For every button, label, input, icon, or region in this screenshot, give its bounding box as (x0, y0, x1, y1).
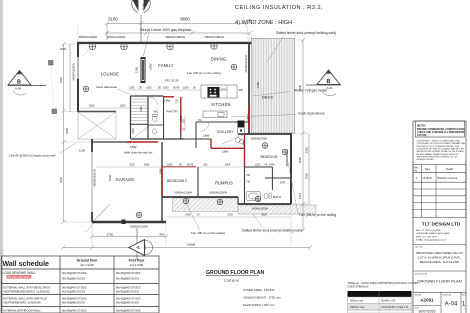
svg-text:Slatted timber deck (exempt bu: Slatted timber deck (exempt building wor… (276, 31, 336, 35)
left page edge strip (0, 0, 3, 313)
svg-text:1205: 1205 (129, 87, 135, 90)
svg-text:3000: 3000 (120, 105, 126, 108)
scullery tubs (236, 138, 241, 143)
svg-text:1400: 1400 (140, 106, 143, 112)
svg-text:3600: 3600 (261, 214, 267, 217)
LBW red wall under stairs (127, 141, 158, 143)
svg-text:90: 90 (248, 18, 252, 22)
svg-text:WC: WC (154, 110, 160, 114)
svg-text:90x45@480 NOGS: 90x45@480 NOGS (62, 301, 85, 305)
slatted deck band south of rumpus (173, 198, 239, 212)
svg-text:8800: 8800 (180, 17, 190, 22)
svg-text:Size & Height: Size & Height (381, 293, 396, 296)
svg-text:800Wx2200H: 800Wx2200H (79, 35, 97, 39)
scullery leader (222, 135, 243, 144)
svg-text:LBW: LBW (130, 145, 137, 149)
section marker B (right) (306, 70, 341, 96)
svg-text:Job Title: Job Title (415, 246, 424, 249)
svg-text:KITCHEN: KITCHEN (211, 102, 230, 107)
svg-text:GROUND FLOOR PLAN: GROUND FLOOR PLAN (206, 270, 264, 276)
svg-text:OVER OPENINGS: OVER OPENINGS (348, 286, 369, 289)
svg-text:1800Wx2200H: 1800Wx2200H (130, 225, 148, 229)
wall: rumpus east (244, 166, 246, 204)
svg-text:NOTE:: NOTE: (417, 124, 426, 128)
title block outer (413, 121, 466, 313)
svg-text:1200: 1200 (135, 67, 139, 73)
window dimension line (105, 31, 252, 35)
svg-text:90 90: 90 90 (187, 164, 194, 167)
svg-text:1500: 1500 (167, 164, 173, 167)
svg-text:710: 710 (246, 181, 251, 184)
LBW red segment east wall (248, 107, 250, 130)
svg-text:Ground floor: Ground floor (77, 259, 98, 263)
svg-text:LBW: LBW (246, 114, 250, 121)
svg-text:LOAD BEARING WALL: LOAD BEARING WALL (3, 271, 37, 275)
svg-text:Walls under the stair b/w: Walls under the stair b/w (124, 151, 152, 155)
svg-text:26.08/20: 26.08/20 (423, 177, 433, 180)
svg-text:Max. Span (mm): Max. Span (mm) (350, 293, 369, 296)
wall: house east upper (248, 44, 250, 134)
svg-text:CEILING INSULATION : R3.2,: CEILING INSULATION : R3.2, (235, 5, 323, 11)
svg-text:800Wx2200H: 800Wx2200H (107, 35, 125, 39)
svg-text:5340: 5340 (108, 174, 112, 181)
svg-text:COPYRIGHT © THIS DOCUMENT: COPYRIGHT © THIS DOCUMENT AND THE (417, 140, 461, 143)
wall: lounge south (78, 111, 116, 113)
right dim lines (301, 38, 309, 232)
svg-text:2490: 2490 (144, 164, 150, 167)
svg-text:PANTRY: PANTRY (166, 110, 178, 114)
svg-text:1500: 1500 (89, 105, 95, 108)
svg-text:2000: 2000 (60, 47, 67, 51)
svg-text:4800Wx2200H: 4800Wx2200H (93, 169, 97, 186)
copyright text (417, 140, 466, 162)
wall: garage east (161, 142, 163, 222)
wc toilet (153, 115, 158, 122)
svg-text:TLT DESIGN LTD: TLT DESIGN LTD (422, 222, 461, 228)
svg-text:FAMILY: FAMILY (158, 63, 174, 68)
svg-text:LOT 6, 6 HARUKU/PUKU AVE ,: LOT 6, 6 HARUKU/PUKU AVE , (418, 256, 462, 260)
bedroom interior wall (245, 166, 272, 168)
svg-text:LBW: LBW (164, 99, 171, 103)
svg-text:CEILING HEIGHT : 2730 mm: CEILING HEIGHT : 2730 mm (243, 296, 281, 300)
svg-text:Building Consent: Building Consent (438, 176, 458, 180)
svg-text:Drawing Title: Drawing Title (415, 273, 428, 276)
svg-text:LBW: LBW (203, 134, 210, 138)
bottom main dim (61, 246, 312, 250)
svg-text:5700: 5700 (107, 233, 114, 237)
svg-text:WEATHERBOARD/BRICK CLADDING: WEATHERBOARD/BRICK CLADDING (4, 290, 50, 294)
svg-text:Cook hood above: Cook hood above (298, 112, 325, 116)
job title section (413, 244, 466, 246)
svg-text:A-04: A-04 (445, 302, 458, 308)
svg-text:BEDROOM: BEDROOM (260, 155, 277, 159)
svg-text:90 90: 90 90 (173, 87, 180, 90)
svg-text:9030: 9030 (221, 88, 227, 92)
svg-text:1905: 1905 (225, 164, 231, 167)
drawing title section (413, 270, 466, 272)
svg-text:1290: 1290 (79, 149, 86, 153)
svg-text:Sheet No.: Sheet No. (443, 294, 453, 297)
svg-text:DECK: DECK (262, 95, 273, 100)
outer wall: bath south (238, 203, 291, 205)
LBW red bedroom2 north (162, 166, 196, 168)
row internal bathroom (4, 309, 141, 313)
lounge west window lighter (77, 57, 79, 79)
svg-text:CONTENTS OF THIS DOCUMENT: CONTENTS OF THIS DOCUMENT MAY NOT BE (417, 147, 465, 150)
svg-text:MOB: 021 1120 1178: MOB: 021 1120 1178 (416, 237, 437, 239)
svg-text:2310: 2310 (255, 164, 261, 167)
left dim lines (62, 42, 71, 224)
wall: wc east (163, 96, 165, 139)
wall: stairs west (130, 96, 132, 139)
scullery door arc (200, 123, 209, 132)
svg-text:LBW: LBW (222, 150, 229, 154)
svg-text:Slatted timber deck (exempt bu: Slatted timber deck (exempt building wor… (242, 229, 302, 233)
svg-text:LBW: LBW (179, 115, 183, 122)
LBW red wall pantry east (180, 97, 182, 132)
svg-text:1200: 1200 (132, 128, 135, 134)
svg-text:900mm max: 900mm max (350, 300, 364, 303)
svg-text:Fan (25L/s) on the ceiling: Fan (25L/s) on the ceiling (187, 71, 221, 75)
svg-text:1800Wx1800H: 1800Wx1800H (204, 35, 224, 39)
svg-text:900Wx1000H: 900Wx1000H (252, 207, 268, 211)
svg-text:No.: No. (414, 170, 418, 173)
outer wall: bedroom wing north (238, 133, 291, 135)
svg-text:FFL 30 30: FFL 30 30 (165, 79, 179, 83)
wr south wall (265, 177, 291, 179)
svg-text:ADD: 31 TIROTO DRIVE,: ADD: 31 TIROTO DRIVE, (416, 229, 441, 232)
laundry tub (153, 129, 157, 134)
svg-text:Details: Details (446, 168, 454, 171)
svg-text:COPYRIGHT OF THIS DOCUMENT: COPYRIGHT OF THIS DOCUMENT REMAIN THE (417, 142, 466, 145)
svg-text:90x45@480 NOGS: 90x45@480 NOGS (116, 301, 139, 305)
svg-text:1600Wx1200H: 1600Wx1200H (174, 191, 192, 195)
svg-text:900: 900 (203, 164, 208, 167)
svg-text:30/07/2020: 30/07/2020 (419, 310, 436, 313)
outer wall: bedroom2/rumpus south (162, 196, 238, 198)
svg-text:Date: Date (425, 168, 431, 171)
svg-text:GLENDENE, BEACH, AUCKLAND: GLENDENE, BEACH, AUCKLAND (416, 232, 450, 235)
svg-text:EXTERNAL WALL WITH VERTICLE: EXTERNAL WALL WITH VERTICLE (4, 297, 48, 301)
svg-text:1000: 1000 (183, 87, 189, 90)
svg-text:WEATHERBOARD CLADDING: WEATHERBOARD CLADDING (4, 301, 41, 305)
cooktop black (208, 87, 220, 98)
stair landing wall (131, 124, 148, 126)
outer wall: garage south (92, 221, 166, 223)
svg-text:1215: 1215 (298, 192, 302, 199)
svg-text:Wall schedule: Wall schedule (3, 261, 50, 268)
outer wall: top (77, 42, 252, 44)
wall: scullery north (196, 121, 249, 123)
svg-text:RUMPUS: RUMPUS (215, 181, 233, 186)
svg-text:90x45@400 STUDS: 90x45@400 STUDS (116, 297, 141, 301)
svg-text:A-09: A-09 (142, 3, 146, 10)
closet wall (271, 167, 273, 190)
fireplace (141, 57, 146, 83)
svg-text:(H1.2 SG8): (H1.2 SG8) (130, 263, 144, 267)
svg-text:90x45@800 NOGS: 90x45@800 NOGS (116, 277, 139, 281)
outer wall: left lounge (77, 43, 79, 112)
svg-text:90x45@400 STUDS: 90x45@400 STUDS (116, 271, 141, 275)
internal dim row y88 (129, 87, 196, 90)
fridge black (238, 121, 245, 128)
svg-text:2400Wx2200H: 2400Wx2200H (72, 63, 76, 80)
svg-text:2400Wx2200H: 2400Wx2200H (244, 55, 248, 72)
svg-text:1800: 1800 (65, 127, 69, 134)
wall schedule table (2, 256, 160, 313)
svg-text:Fan (25L/s) on the ceiling: Fan (25L/s) on the ceiling (191, 231, 225, 235)
svg-text:DINING: DINING (211, 57, 227, 62)
wall: bedroom2/rumpus divide (197, 167, 199, 197)
svg-text:140x45 @300 full height studs: 140x45 @300 full height studs wall (9, 154, 56, 158)
smoke detector symbols (83, 43, 288, 218)
svg-text:Rinnai Linear 1000 gas firepla: Rinnai Linear 1000 gas fireplace (140, 28, 192, 32)
window labels along top wall (79, 35, 224, 39)
svg-text:90x45@800 NOGS: 90x45@800 NOGS (62, 277, 85, 281)
lounge corner dashed brace (81, 45, 95, 57)
svg-text:LBW: LBW (159, 168, 163, 175)
appliance below fridge (238, 128, 245, 134)
svg-text:A-09: A-09 (15, 87, 21, 91)
row external bevel back (4, 286, 141, 294)
svg-text:GARAGE: GARAGE (116, 177, 135, 182)
bath fixtures (247, 192, 272, 201)
svg-text:1400: 1400 (269, 164, 275, 167)
section marker A (top) (132, 0, 151, 43)
LBW red wall pantry north (164, 96, 175, 98)
svg-text:Two/140x45 or 2 figs h x4: Two/140x45 or 2 figs h x4 (381, 306, 409, 309)
svg-text:1600Wx2200H: 1600Wx2200H (209, 191, 227, 195)
svg-text:LBW: LBW (242, 140, 246, 147)
svg-text:EAVE WIDTH = 600 mm: EAVE WIDTH = 600 mm (243, 303, 275, 307)
svg-text:90x45@400 STUDS: 90x45@400 STUDS (62, 286, 87, 290)
svg-text:3120: 3120 (129, 164, 135, 167)
construction extension lines (64, 24, 309, 246)
post on garage south wall (122, 220, 126, 225)
svg-text:90x45@800 NOGS: 90x45@800 NOGS (62, 290, 85, 294)
note box (416, 121, 465, 137)
LBW red rumpus east (244, 134, 246, 166)
pantry dim line (184, 115, 186, 132)
under-stair diagonal (131, 126, 149, 140)
garage door swing (86, 204, 110, 232)
posts (49, 61, 54, 66)
svg-text:2400: 2400 (59, 76, 63, 83)
wall: stairs east / wc west (147, 96, 149, 139)
svg-text:1900mm max: 1900mm max (350, 306, 365, 309)
svg-text:990: 990 (159, 233, 164, 237)
wall: pantry south (131, 138, 184, 140)
section marker B (left) (8, 71, 46, 95)
svg-text:90x45@400 STUDS: 90x45@400 STUDS (62, 271, 87, 275)
svg-text:E-MAIL: tltdesign8@gmail.com: E-MAIL: tltdesign8@gmail.com (416, 239, 446, 242)
svg-text:1000: 1000 (184, 118, 186, 124)
svg-text:9240: 9240 (298, 84, 302, 91)
svg-text:Fan (25L/s) on the ceiling: Fan (25L/s) on the ceiling (299, 213, 336, 217)
svg-text:INTERNAL BATHROOM WALL: INTERNAL BATHROOM WALL (4, 309, 42, 313)
svg-text:A-09: A-09 (144, 244, 147, 250)
wc door arc (150, 97, 158, 105)
top dimension line overall (105, 22, 249, 41)
svg-text:2550: 2550 (305, 172, 309, 179)
svg-text:B: B (17, 80, 21, 86)
svg-text:5450: 5450 (256, 81, 260, 88)
wall: scullery west (195, 122, 197, 148)
internal dim row y165 (129, 164, 231, 167)
bottom dim garage (90, 235, 168, 239)
svg-text:REPRODUCED EITHER IN WHOLE: REPRODUCED EITHER IN WHOLE OR IN PART (417, 150, 465, 153)
kitchen bench (201, 85, 237, 98)
svg-text:4) WIND ZONE : HIGH: 4) WIND ZONE : HIGH (235, 20, 292, 26)
deck area with slatted timber hatch (252, 39, 295, 134)
svg-text:BEACHLANDS, AUCKLAND: BEACHLANDS, AUCKLAND (420, 260, 460, 264)
svg-text:ON SITE: ON SITE (417, 134, 427, 137)
svg-text:A-09: A-09 (327, 86, 333, 90)
revision table (413, 165, 466, 218)
wall: middle north (131, 95, 164, 97)
svg-text:5100: 5100 (108, 17, 118, 22)
staircase treads (131, 99, 148, 124)
svg-text:90x45@800 NOGS: 90x45@800 NOGS (116, 290, 139, 294)
LBW red scullery south (211, 147, 245, 149)
section marker A (bottom) (129, 228, 153, 260)
svg-text:90x45@400 STUDS: 90x45@400 STUDS (62, 297, 87, 301)
svg-text:1800Wx700H: 1800Wx700H (251, 137, 267, 141)
svg-text:90x45h x 4 B: 90x45h x 4 B (381, 300, 395, 303)
svg-text:16800: 16800 (187, 243, 196, 247)
svg-text:760: 760 (246, 174, 251, 177)
LBW red segment garage east (161, 167, 163, 197)
svg-text:A2061: A2061 (421, 298, 434, 303)
svg-text:COVER AREA : 190.842: COVER AREA : 190.842 (243, 288, 275, 292)
wall: garage north (92, 141, 131, 143)
svg-text:DESIGN LIMITED.: DESIGN LIMITED. (417, 159, 435, 161)
svg-text:5370: 5370 (59, 176, 63, 183)
svg-text:3730: 3730 (227, 214, 233, 217)
LBW red scullery west (210, 139, 212, 148)
svg-text:(H1.2 SG8): (H1.2 SG8) (80, 263, 94, 267)
svg-text:1000: 1000 (163, 87, 169, 90)
svg-text:1:100 @ A3: 1:100 @ A3 (224, 279, 240, 283)
leader to fireplace (144, 32, 150, 56)
bottom block (413, 291, 466, 293)
svg-text:LBW: LBW (149, 63, 153, 70)
internal dim row y215 (185, 214, 267, 217)
svg-text:90x45@400 STUDS: 90x45@400 STUDS (116, 286, 141, 290)
svg-text:90x45@400 STUDS: 90x45@400 STUDS (62, 309, 87, 313)
wall: garage west (91, 139, 93, 152)
svg-text:Glass balustrade: Glass balustrade (96, 85, 117, 89)
svg-text:BY ANY MEANS WHATSOEVER WI: BY ANY MEANS WHATSOEVER WITHOUT (417, 153, 460, 156)
svg-text:1800Wx1800H: 1800Wx1800H (165, 35, 185, 39)
svg-text:1800: 1800 (146, 87, 152, 90)
svg-text:Job No.: Job No. (415, 295, 423, 297)
porch void with cross (78, 112, 116, 139)
svg-text:90x45@400 STUDS: 90x45@400 STUDS (116, 309, 141, 313)
slatted deck band south of bath (238, 205, 316, 214)
lintel table (348, 291, 412, 297)
svg-text:PROPOSED NEW DWELLING AT: PROPOSED NEW DWELLING AT (416, 251, 463, 255)
svg-text:3000: 3000 (298, 156, 302, 163)
svg-text:GROUND FLOOR PLAN: GROUND FLOOR PLAN (417, 279, 461, 284)
wall: middle horizontal x184-211 (184, 138, 211, 140)
outer wall: east (290, 133, 292, 204)
wc south wall (148, 124, 164, 126)
svg-text:LOUNGE: LOUNGE (101, 72, 120, 77)
svg-text:BATH: BATH (273, 195, 281, 199)
svg-text:EXTERNAL WALL WITH BEVEL B: EXTERNAL WALL WITH BEVEL BACK (4, 286, 51, 290)
svg-text:WR: WR (280, 181, 286, 185)
svg-text:BEDROOM 2: BEDROOM 2 (167, 179, 187, 183)
svg-text:900: 900 (239, 88, 244, 92)
svg-text:SCULLERY: SCULLERY (217, 130, 235, 134)
svg-text:2310: 2310 (305, 146, 309, 153)
kitchen island (203, 111, 227, 118)
svg-text:First floor: First floor (129, 259, 146, 263)
svg-text:B: B (327, 79, 331, 85)
row external verticle (4, 297, 141, 305)
svg-text:2400: 2400 (185, 214, 191, 217)
